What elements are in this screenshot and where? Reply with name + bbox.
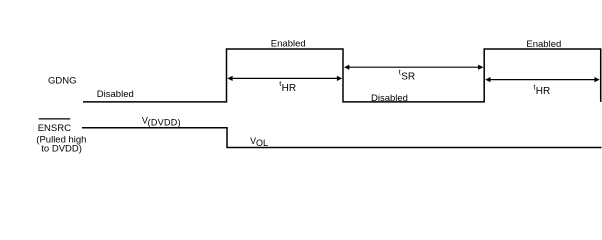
svg-text:Enabled: Enabled xyxy=(526,39,561,50)
svg-text:HR: HR xyxy=(282,83,296,94)
wire GDNG signal trace xyxy=(83,49,601,102)
wire ENSRC signal trace xyxy=(82,128,602,148)
svg-text:Disabled: Disabled xyxy=(371,93,408,104)
svg-text:to DVDD): to DVDD) xyxy=(41,143,82,154)
svg-text:HR: HR xyxy=(536,86,550,97)
svg-text:ENSRC: ENSRC xyxy=(38,123,71,134)
svg-text:Disabled: Disabled xyxy=(97,89,134,100)
label ENSRC overbar xyxy=(39,118,70,120)
svg-text:Enabled: Enabled xyxy=(271,38,306,49)
svg-text:SR: SR xyxy=(401,71,415,82)
svg-text:(DVDD): (DVDD) xyxy=(148,117,181,127)
dimension arrow tHR second (spans second pulse) xyxy=(485,77,600,82)
dimension arrow tSR (spans disabled gap between pulses) xyxy=(344,65,483,70)
svg-text:GDNG: GDNG xyxy=(48,75,77,86)
svg-text:OL: OL xyxy=(256,138,268,148)
dimension arrow tHR first (hold/release time, spans first pulse) xyxy=(227,76,342,81)
